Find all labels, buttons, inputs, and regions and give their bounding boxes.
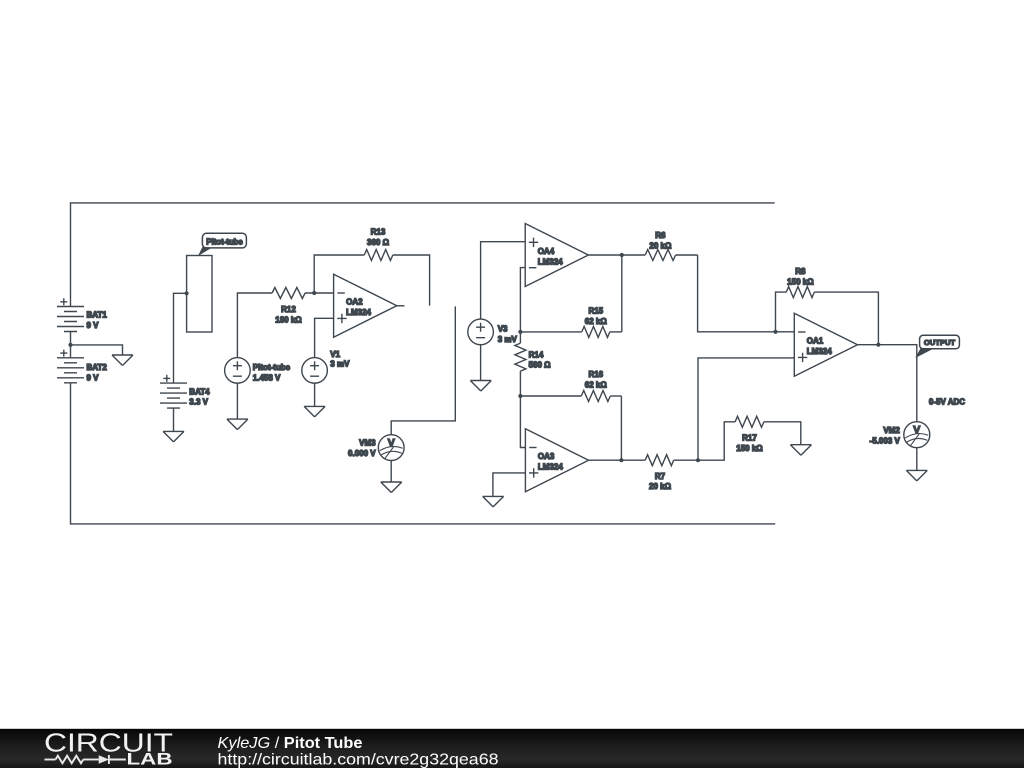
label 0-5V ADC	[929, 398, 965, 407]
svg-text:Pitot-tube: Pitot-tube	[253, 363, 291, 372]
svg-text:R6: R6	[655, 231, 666, 240]
svg-text:http://circuitlab.com/cvre2g32: http://circuitlab.com/cvre2g32qea68	[218, 751, 499, 768]
svg-text:OUTPUT: OUTPUT	[924, 338, 956, 347]
battery BAT4 3.3 V	[160, 375, 210, 432]
svg-text:9 V: 9 V	[87, 321, 100, 330]
flag OUTPUT	[915, 335, 959, 358]
svg-text:3 mV: 3 mV	[498, 335, 518, 344]
wire OA2 output node to VM3	[391, 306, 455, 434]
ground V3	[470, 381, 491, 392]
svg-text:LM324: LM324	[807, 347, 832, 356]
svg-text:BAT4: BAT4	[189, 387, 210, 396]
ground R17	[790, 445, 811, 456]
svg-text:62 kΩ: 62 kΩ	[585, 381, 608, 390]
svg-text:LM324: LM324	[538, 257, 563, 266]
voltmeter VM3 0.000 V	[348, 435, 404, 461]
wire OA3 non-inverting to ground	[493, 473, 526, 497]
svg-text:KyleJG / Pitot Tube: KyleJG / Pitot Tube	[218, 735, 363, 752]
op-amp OA3 LM324	[525, 429, 588, 492]
wire R16 to OA3 output node	[620, 396, 622, 460]
svg-text:20 kΩ: 20 kΩ	[649, 482, 672, 491]
junction node R15/R14/OA4-	[518, 330, 522, 334]
resistor R17 150 kΩ	[698, 416, 801, 460]
svg-text:R8: R8	[795, 267, 806, 276]
svg-text:3.3 V: 3.3 V	[189, 398, 208, 407]
junction node OA1 inverting	[773, 330, 777, 334]
wire feedback right (R13 to OA2 output)	[393, 255, 430, 306]
voltage source Pitot-tube 1.458 V	[225, 358, 291, 384]
svg-text:BAT1: BAT1	[87, 311, 108, 320]
resistor R6 20 kΩ	[589, 231, 698, 260]
battery BAT2 9 V	[57, 345, 107, 383]
wire feedback left (node to R13)	[314, 255, 364, 293]
resistor R8 150 kΩ	[776, 267, 879, 345]
svg-text:20 kΩ: 20 kΩ	[649, 242, 672, 251]
svg-text:62 kΩ: 62 kΩ	[585, 317, 608, 326]
svg-text:R17: R17	[742, 434, 757, 443]
svg-text:VM2: VM2	[883, 426, 900, 435]
junction node OA4 output	[620, 253, 624, 257]
svg-text:150 kΩ: 150 kΩ	[736, 444, 763, 453]
svg-text:Pitot-tube: Pitot-tube	[206, 238, 243, 247]
junction node OA2 inverting	[312, 291, 316, 295]
junction node R7/R17/OA1+	[696, 458, 700, 462]
ground V1	[304, 406, 325, 417]
op-amp OA1 LM324	[794, 313, 857, 376]
wire pitot sensor to BAT4	[174, 293, 187, 383]
svg-text:R12: R12	[281, 305, 296, 314]
ground VM2	[906, 470, 927, 481]
voltage source V3 3 mV	[468, 319, 518, 345]
svg-text:R14: R14	[529, 351, 544, 360]
wire V1 to ground	[314, 383, 316, 406]
svg-text:OA1: OA1	[807, 337, 824, 346]
svg-text:R7: R7	[655, 472, 666, 481]
wire OA4 inverting to R15 node	[520, 268, 525, 332]
ground BAT4	[163, 431, 184, 442]
svg-text:V3: V3	[498, 325, 508, 334]
junction node OA3 output	[619, 458, 623, 462]
svg-text:R16: R16	[588, 370, 603, 379]
pitot-tube sensor body (rectangle)	[187, 256, 212, 333]
svg-text:OA3: OA3	[538, 452, 555, 461]
ground (battery midpoint)	[112, 355, 133, 366]
svg-text:1.458 V: 1.458 V	[253, 373, 281, 382]
wire top rail (V+)	[71, 203, 775, 307]
voltmeter VM2 -5.003 V	[870, 422, 930, 448]
svg-text:3 mV: 3 mV	[330, 360, 350, 369]
callout Pitot-tube	[198, 233, 247, 256]
svg-text:R15: R15	[588, 307, 603, 316]
logo CIRCUIT LAB	[44, 729, 173, 768]
ground OA3	[483, 496, 504, 507]
voltage source V1 3 mV	[302, 350, 350, 383]
op-amp OA2 LM324	[334, 274, 405, 337]
wire pitot source to ground	[236, 383, 238, 419]
ground VM3	[381, 482, 402, 493]
wire OA1 output to VM2	[858, 345, 917, 422]
wire VM3 to ground	[390, 461, 392, 483]
svg-text:-5.003 V: -5.003 V	[870, 436, 901, 445]
junction node R14 bottom / R16 / OA3-	[518, 394, 522, 398]
wire R15 to OA4 output node	[621, 255, 623, 332]
svg-text:9 V: 9 V	[87, 373, 100, 382]
svg-text:LAB: LAB	[127, 751, 173, 768]
wire BAT junction to ground	[71, 345, 123, 355]
svg-text:OA4: OA4	[538, 247, 555, 256]
footer title KyleJG / Pitot Tube	[218, 735, 499, 768]
svg-text:150 kΩ: 150 kΩ	[787, 277, 814, 286]
op-amp OA4 LM324	[525, 224, 588, 287]
svg-text:360 Ω: 360 Ω	[367, 238, 390, 247]
resistor R13 360 Ω	[364, 227, 393, 260]
junction node pitot sensor tap	[185, 291, 189, 295]
junction node BAT1/BAT2	[68, 343, 72, 347]
svg-text:LM324: LM324	[538, 463, 563, 472]
svg-text:OA2: OA2	[346, 298, 363, 307]
svg-text:R13: R13	[371, 227, 386, 236]
resistor R7 20 kΩ	[589, 455, 698, 492]
svg-text:0.000 V: 0.000 V	[348, 449, 376, 458]
wire OA3 inverting to R16 node	[520, 396, 525, 448]
svg-text:LM324: LM324	[346, 308, 371, 317]
wire V3 to ground	[480, 345, 482, 381]
resistor R14 560 Ω (vertical)	[515, 332, 551, 396]
wire R6 to OA1 inverting input	[698, 255, 795, 332]
ground pitot source	[227, 419, 248, 430]
svg-text:180 kΩ: 180 kΩ	[275, 315, 302, 324]
svg-text:BAT2: BAT2	[87, 363, 108, 372]
battery BAT1 9 V	[57, 298, 107, 345]
wire OA1 non-inverting input	[698, 358, 794, 460]
wire R12 to OA2 inverting input	[305, 292, 334, 294]
resistor R16 62 kΩ	[520, 370, 621, 401]
wire pitot source to R12	[237, 293, 272, 358]
wire V3 to OA4 non-inverting input	[481, 242, 526, 319]
resistor R15 62 kΩ	[520, 307, 621, 338]
svg-text:560 Ω: 560 Ω	[529, 360, 552, 369]
wire OA2 non-inverting to V1	[315, 318, 334, 357]
svg-text:0-5V ADC: 0-5V ADC	[929, 398, 965, 407]
resistor R12 180 kΩ	[272, 288, 305, 325]
wire bottom rail (V-)	[71, 383, 776, 524]
svg-text:VM3: VM3	[359, 439, 376, 448]
wire VM2 to ground	[916, 448, 918, 471]
junction node OA1 output	[876, 343, 880, 347]
svg-text:V1: V1	[330, 350, 340, 359]
